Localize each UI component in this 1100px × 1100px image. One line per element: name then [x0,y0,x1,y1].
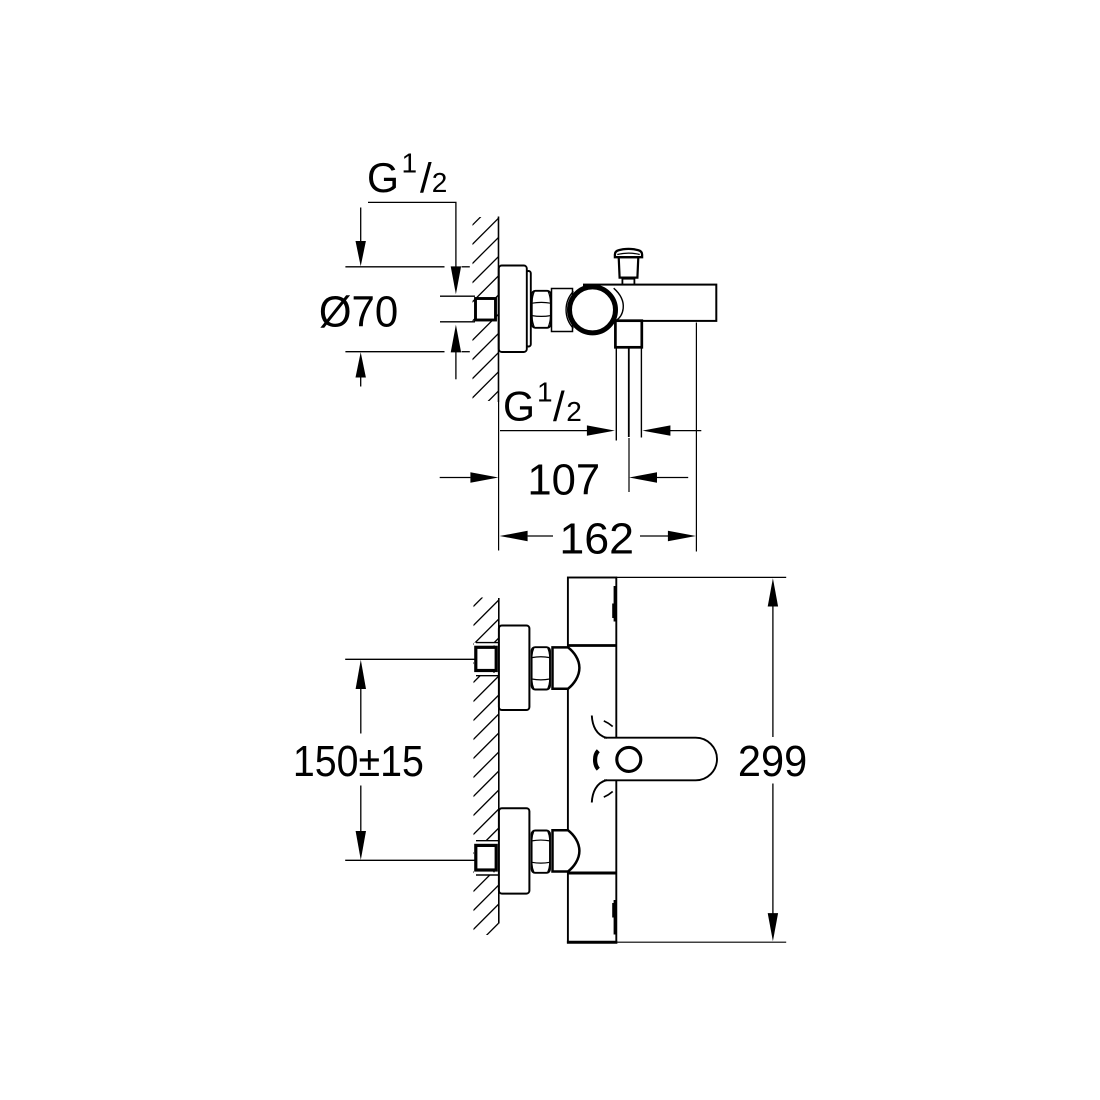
aerator [617,747,641,771]
lower S-union square head [476,845,496,870]
wall extension line below [498,402,500,551]
dimension Ø70 upper arrow [360,208,362,243]
S-union square head (side view) [476,299,496,321]
lower joint line on body [567,872,616,875]
dimension 150±15 extension lines [345,658,474,660]
spout bottom fillet [592,780,607,802]
Ø70 top extension line [345,266,444,268]
faucet body (side view) [584,285,716,321]
housing crescent arc left of handle [566,291,573,328]
lower escutcheon flange (front view) [499,808,530,893]
dimension 299 extension lines [616,576,786,578]
spout top fillet [592,716,607,738]
svg-text:1: 1 [537,376,553,407]
spout (front view) [604,738,717,781]
dimension text G 1/2 (hose thread) [503,376,582,430]
shaft below pipe [455,352,457,379]
svg-text:/: / [420,154,432,201]
dimension text G 1/2 (wall union, top) [367,148,447,202]
Ø70 bottom extension line [345,351,444,353]
svg-text:1: 1 [402,148,418,179]
body bottom thick edge [567,941,617,944]
diverter knob stem [622,279,634,285]
G1/2 hose dimension line with arrows [500,430,587,432]
wall face line (front view) [498,598,500,924]
bath outlet (side view) [615,321,641,348]
svg-text:2: 2 [566,396,582,427]
Ø70 lower arrow [356,352,366,377]
shower hose lines [616,348,641,441]
svg-text:G: G [367,154,399,201]
thermostat handle (side view) [570,287,616,333]
upper union cylinder behind square [474,643,499,676]
svg-text:Ø70: Ø70 [319,288,398,337]
lower union cylinder behind square [474,841,499,875]
upper hex nut (front view) [532,647,550,689]
inlet pipe (side view) [440,296,475,322]
diverter knob cap [615,249,642,257]
faucet body (front view) [568,578,616,943]
escutcheon flange (side view) [499,266,531,353]
upper connection cone [553,647,580,688]
centre mark on body at spout height [595,751,598,769]
svg-text:/: / [553,383,565,430]
dimension 299 line and arrows [768,578,778,606]
top-right shading marks on body [614,586,616,622]
dimension 150±15 line and arrows [356,660,366,689]
hex nut (side view) [532,291,551,328]
svg-text:107: 107 [527,455,600,504]
svg-text:150±15: 150±15 [293,737,424,786]
svg-text:299: 299 [738,737,807,786]
leader line for G 1/2 top [368,202,456,268]
valve inlet block (side view) [552,289,573,332]
diverter knob body [619,257,639,277]
svg-text:G: G [503,382,535,429]
bottom-right shading marks on body [614,900,616,935]
dimension 107 line [440,477,471,479]
wall hatching (side view) [462,199,499,447]
dimension 162 line [500,531,528,541]
arrow G1/2 down to pipe top [451,266,461,294]
upper joint line on body [567,644,616,647]
wall hatching (front view) [463,581,499,978]
upper escutcheon flange (front view) [499,626,530,711]
lower hex nut (front view) [532,831,550,873]
arrow up to pipe bottom [451,325,461,353]
extension line at body right edge [695,323,697,552]
svg-text:2: 2 [432,167,448,198]
svg-text:162: 162 [559,514,634,563]
lower connection cone [553,830,580,871]
upper S-union square head [476,647,496,670]
housing bulge arc right of handle [614,288,624,321]
extension line at hose centre [628,438,630,492]
wall face line (side view) [498,217,500,403]
